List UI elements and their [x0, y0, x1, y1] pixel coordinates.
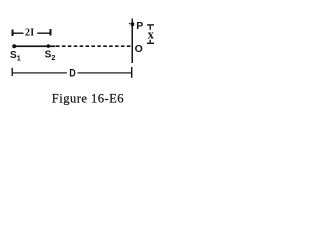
point P dot: [131, 22, 135, 26]
node S1 dot: [12, 44, 16, 48]
svg-text:O: O: [135, 43, 143, 55]
svg-text:2I: 2I: [25, 28, 35, 39]
svg-text:D: D: [69, 68, 76, 80]
x dimension bottom stub: [150, 40, 151, 43]
source baseline solid wire S1 to S2: [13, 45, 56, 47]
x dimension top stub: [150, 26, 151, 30]
svg-text:P: P: [136, 20, 143, 32]
node S2 dot: [47, 44, 51, 48]
svg-text:Figure 16-E6: Figure 16-E6: [52, 91, 124, 105]
dashed wire S2 to O: [56, 45, 132, 47]
speck left of P dot: [129, 23, 131, 24]
dimension 2I left line segment: [14, 33, 24, 34]
dimension D left line segment: [13, 72, 67, 73]
svg-text:x: x: [148, 27, 155, 42]
dimension 2I left tick: [12, 30, 14, 37]
dimension D right tick: [131, 67, 132, 78]
screen vertical line: [132, 19, 134, 63]
x dimension bottom bar: [147, 43, 154, 44]
x dimension top bar: [147, 24, 154, 25]
dimension 2I right tick: [50, 29, 52, 36]
dimension D right line segment: [78, 72, 132, 73]
dimension D left tick: [12, 68, 13, 76]
dimension 2I right line segment: [37, 33, 49, 34]
